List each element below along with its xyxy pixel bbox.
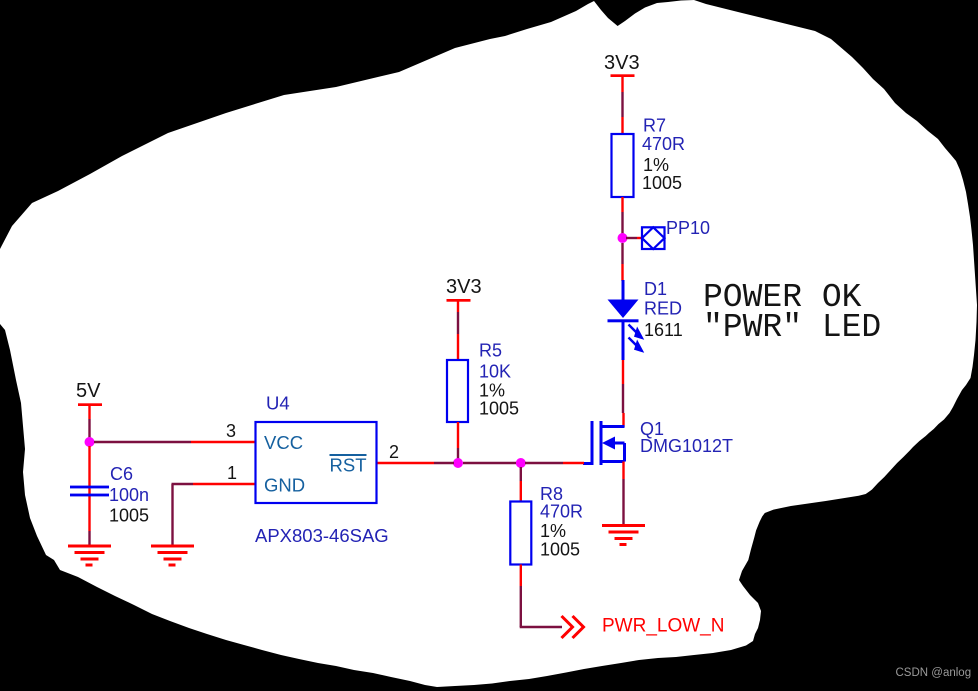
svg-text:VCC: VCC [264,432,303,453]
svg-text:1005: 1005 [540,540,580,560]
svg-text:D1: D1 [644,279,667,299]
svg-text:1005: 1005 [109,506,149,526]
node junction (R8 / gate) [516,458,526,468]
wire R8 to port [520,565,562,628]
transistor Q1 DMG1012T (N-MOSFET) [583,421,625,465]
wire node to U4 VCC pin 3 [94,441,255,443]
wire 3V3 to R7 [621,92,623,134]
svg-text:1611: 1611 [644,320,683,340]
svg-text:1005: 1005 [479,399,519,419]
power port 5V [76,380,102,419]
svg-text:3: 3 [226,421,236,441]
Q1 source arrow [602,437,615,450]
wire R5 to node [457,422,459,459]
wire C6 to ground [88,531,90,545]
svg-text:PWR_LOW_N: PWR_LOW_N [602,616,724,637]
svg-text:470R: 470R [540,502,583,522]
svg-text:5V: 5V [76,380,101,402]
ground (U4 GND) [151,546,194,565]
node junction (R7 / PP10 / D1) [618,233,628,243]
svg-text:R7: R7 [643,116,666,136]
LED D1 [608,279,683,360]
svg-text:APX803-46SAG: APX803-46SAG [255,525,389,546]
power port 3V3 (top, net of R7) [604,52,640,92]
capacitor C6 [70,464,149,526]
resistor R7 [612,116,686,198]
wire node to C6 [88,446,90,531]
svg-text:RST: RST [330,455,367,476]
svg-text:470R: 470R [642,134,685,154]
wire Q1 source to ground [622,462,624,525]
svg-text:GND: GND [264,475,305,496]
wire RST net row [377,462,584,464]
svg-text:PP10: PP10 [666,218,710,238]
wire 3V3 to R5 [457,312,459,360]
node junction (RST / R5) [453,458,463,468]
power port 3V3 (R5 net) [446,276,482,312]
note POWER OK "PWR" LED [703,279,881,346]
wire R7 to node PP10 [621,197,623,234]
wire 5V to node [88,419,90,438]
svg-text:RED: RED [644,299,682,319]
test point PP10 [642,218,710,249]
svg-text:2: 2 [389,442,399,462]
svg-text:C6: C6 [110,464,133,484]
ground (C6) [68,546,111,565]
svg-text:3V3: 3V3 [446,276,482,298]
svg-text:1%: 1% [540,521,566,541]
wire junction to D1 anode [621,243,623,281]
ground (Q1 source) [602,526,645,545]
port PWR_LOW_N chevron [562,616,584,638]
resistor R5 [447,341,519,423]
svg-text:1%: 1% [643,155,669,175]
svg-text:CSDN @anlog: CSDN @anlog [896,667,972,679]
svg-text:100n: 100n [109,485,149,505]
svg-text:1: 1 [227,463,237,483]
resistor R8 [510,484,583,565]
wire D1 cathode to Q1 drain [622,360,625,427]
node junction (5V / C6 / VCC) [85,437,95,447]
svg-text:1%: 1% [479,381,505,401]
wire node to R8 [520,467,522,502]
svg-text:"PWR" LED: "PWR" LED [703,309,881,346]
svg-text:10K: 10K [479,362,511,382]
svg-text:U4: U4 [266,393,290,414]
IC U4 APX803-46SAG (voltage supervisor) [255,393,389,547]
svg-text:DMG1012T: DMG1012T [640,436,733,456]
svg-text:R5: R5 [479,341,502,361]
wire junction to PP10 [626,237,642,239]
svg-text:3V3: 3V3 [604,52,640,74]
svg-text:1005: 1005 [642,173,682,193]
wire U4 GND pin 1 to ground [172,484,256,545]
